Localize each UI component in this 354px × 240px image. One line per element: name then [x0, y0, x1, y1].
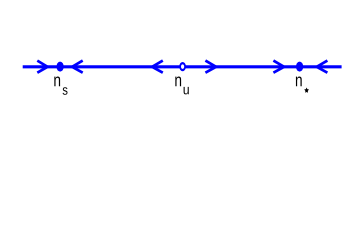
label n_u subscript u: [184, 87, 189, 95]
arrow A5 right-pointing toward n_star: [273, 61, 284, 73]
arrow A3 left-pointing away from n_u: [152, 61, 163, 73]
label n_s letter n: [54, 77, 60, 87]
label n_s subscript s: [63, 87, 68, 95]
arrow A4 right-pointing away from n_u: [205, 61, 216, 73]
wire: main phase line: [23, 65, 342, 68]
label n_star letter n: [296, 77, 302, 87]
label n_star subscript star: [304, 87, 309, 92]
arrow A1 right-pointing toward n_s: [37, 61, 47, 73]
arrow A2 left-pointing toward n_s: [72, 61, 83, 73]
node n_s stable fixed point (filled dot): [56, 62, 63, 72]
label n_u letter n: [175, 77, 181, 87]
arrow A6 left-pointing toward n_star: [317, 61, 328, 73]
node n_star stable fixed point (filled dot): [296, 62, 303, 72]
node n_u unstable fixed point (open circle): [180, 63, 185, 70]
